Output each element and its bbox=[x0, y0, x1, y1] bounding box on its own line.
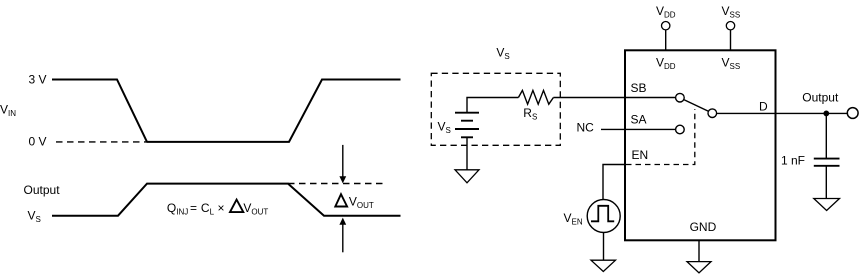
VEN ground lead bbox=[603, 233, 605, 261]
SA contact circle bbox=[676, 125, 685, 134]
IC box bbox=[625, 50, 776, 240]
svg-text:SB: SB bbox=[631, 81, 647, 95]
svg-text:Output: Output bbox=[802, 91, 839, 105]
dashed high-level extension bbox=[288, 183, 385, 185]
VDD terminal circle bbox=[662, 22, 670, 30]
battery VS bbox=[455, 113, 479, 138]
wire RS to SB pin bbox=[553, 97, 675, 99]
svg-text:VOUT: VOUT bbox=[349, 194, 374, 210]
wire common pole to output bbox=[717, 112, 848, 114]
svg-text:VS: VS bbox=[438, 120, 451, 136]
svg-text:=: = bbox=[190, 201, 197, 215]
capacitor CL bbox=[814, 159, 840, 166]
svg-text:VOUT: VOUT bbox=[243, 201, 268, 217]
svg-text:CL: CL bbox=[201, 201, 215, 217]
VDD lead bbox=[665, 30, 667, 50]
svg-text:EN: EN bbox=[632, 148, 649, 162]
QINJ formula bbox=[167, 200, 269, 217]
VS source dashed box bbox=[431, 73, 560, 145]
svg-text:3 V: 3 V bbox=[29, 72, 47, 86]
svg-text:VIN: VIN bbox=[0, 102, 16, 118]
svg-text:VEN: VEN bbox=[564, 211, 583, 227]
delta VOUT label (arrow annotation) bbox=[335, 194, 374, 210]
svg-text:VS: VS bbox=[496, 46, 509, 62]
VEN pulse symbol bbox=[591, 206, 614, 222]
down arrow to dashed level bbox=[339, 145, 346, 184]
svg-text:RS: RS bbox=[523, 106, 537, 122]
GND lead bbox=[698, 240, 700, 261]
svg-text:VSS: VSS bbox=[722, 56, 741, 72]
svg-text:0 V: 0 V bbox=[29, 135, 47, 149]
svg-text:Output: Output bbox=[24, 183, 61, 197]
capacitor bottom lead bbox=[825, 166, 827, 199]
ground (VS source) bbox=[455, 170, 479, 183]
up arrow to low level bbox=[339, 218, 346, 253]
switch arm bbox=[684, 100, 709, 112]
svg-text:QINJ: QINJ bbox=[167, 201, 188, 217]
battery negative lead bbox=[466, 137, 468, 170]
svg-text:SA: SA bbox=[631, 112, 647, 126]
svg-text:NC: NC bbox=[577, 121, 595, 135]
output junction dot bbox=[823, 111, 829, 117]
svg-text:VS: VS bbox=[28, 209, 41, 225]
resistor RS bbox=[518, 90, 553, 104]
common pole circle bbox=[708, 109, 717, 118]
svg-text:VSS: VSS bbox=[722, 4, 741, 20]
ground (capacitor) bbox=[814, 199, 840, 211]
output terminal circle bbox=[847, 108, 858, 119]
svg-text:×: × bbox=[218, 201, 225, 215]
ground (VEN) bbox=[591, 260, 616, 271]
wire battery top to resistor bbox=[467, 98, 518, 113]
VEN source circle bbox=[587, 200, 620, 233]
svg-text:1 nF: 1 nF bbox=[781, 154, 805, 168]
SB contact circle bbox=[676, 93, 685, 102]
0V dashed reference line bbox=[56, 141, 146, 143]
VSS lead bbox=[730, 30, 732, 50]
svg-text:D: D bbox=[759, 99, 768, 113]
VIN waveform bbox=[52, 80, 401, 142]
svg-text:VDD: VDD bbox=[656, 56, 676, 72]
dashed driver path bbox=[626, 109, 695, 165]
EN wire bbox=[603, 165, 625, 200]
svg-text:GND: GND bbox=[690, 220, 717, 234]
VS output waveform bbox=[52, 184, 401, 216]
ground (GND pin) bbox=[687, 262, 711, 273]
svg-text:VDD: VDD bbox=[656, 4, 676, 20]
VSS terminal circle bbox=[726, 22, 734, 30]
NC wire to SA pin bbox=[601, 128, 676, 130]
capacitor top lead bbox=[825, 113, 827, 158]
